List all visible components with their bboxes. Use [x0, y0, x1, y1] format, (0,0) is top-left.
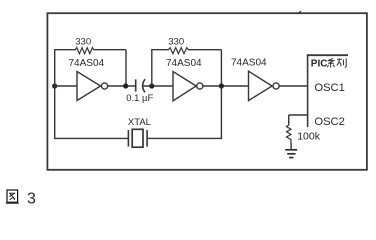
wire: stage2 feedback left vertical	[151, 50, 153, 86]
svg-text:OSC1: OSC1	[314, 82, 344, 94]
label PIC series CJK xi-lie	[327, 58, 346, 67]
svg-text:74AS04: 74AS04	[231, 58, 267, 69]
PIC box top edge	[307, 54, 348, 56]
wire: stage2 feedback right vertical	[220, 50, 222, 86]
svg-text:100k: 100k	[297, 131, 321, 143]
crystal X1 left plate	[127, 130, 129, 147]
node stage1 output junction	[123, 83, 128, 88]
svg-text:XTAL: XTAL	[128, 117, 151, 128]
border frame	[47, 13, 367, 170]
svg-text:3: 3	[27, 191, 36, 208]
svg-text:330: 330	[75, 37, 91, 48]
wire: stage1 feedback top right segment	[94, 49, 126, 51]
node stage2 input junction	[149, 83, 154, 88]
svg-text:0.1 µF: 0.1 µF	[126, 93, 153, 104]
node stage2 output junction	[219, 83, 224, 88]
wire: stage1 input horizontal	[55, 85, 78, 87]
resistor R3 100k vertical	[287, 125, 292, 141]
capacitor C1 left plate	[135, 79, 137, 91]
svg-text:74AS04: 74AS04	[69, 58, 105, 69]
ground symbol	[285, 150, 297, 158]
wire: resistor to ground	[290, 141, 292, 149]
wire: stage2 output to stage3 input	[203, 85, 250, 87]
wire: stage1 feedback top left segment	[54, 49, 75, 51]
label figure caption: tu (CJK)	[6, 190, 19, 203]
svg-text:330: 330	[168, 36, 184, 47]
wire: OSC2 stub vertical	[288, 115, 290, 125]
wire: stage1 feedback left vertical	[54, 50, 56, 86]
resistor R2 330	[168, 48, 188, 54]
PIC box left edge	[307, 54, 309, 127]
wire: right vertical from crystal row up to stage2 output	[220, 86, 222, 139]
crystal X1 right plate	[146, 130, 148, 147]
node stage1 input junction	[52, 83, 57, 88]
op-amp U2 inverter triangle	[173, 72, 196, 101]
svg-text:OSC2: OSC2	[314, 116, 344, 128]
wire: OSC2 stub horizontal	[289, 114, 308, 116]
wire: bottom row left segment to crystal	[54, 137, 128, 139]
op-amp U2 output bubble	[197, 83, 203, 89]
wire: stage2 feedback top left segment	[151, 49, 168, 51]
wire: capacitor to stage2 input	[143, 85, 174, 87]
wire: stage2 feedback top right segment	[188, 49, 221, 51]
wire: stage3 output to OSC1	[279, 85, 307, 87]
wire: stage1 feedback right vertical	[125, 50, 127, 86]
op-amp U3 inverter triangle	[249, 71, 273, 100]
wire: left vertical down to crystal row	[54, 86, 56, 139]
wire: bottom row right segment from crystal	[147, 137, 222, 139]
svg-text:PIC: PIC	[311, 58, 328, 69]
tick mark on top border	[297, 11, 301, 14]
resistor R1 330	[75, 48, 94, 54]
op-amp U1 output bubble	[102, 83, 108, 89]
crystal X1 body	[132, 129, 143, 147]
capacitor C1 curved plate	[143, 79, 145, 92]
op-amp U3 output bubble	[273, 83, 279, 89]
op-amp U1 inverter triangle	[77, 72, 101, 101]
svg-text:74AS04: 74AS04	[166, 58, 202, 69]
wire: stage1 output to capacitor	[108, 85, 135, 87]
